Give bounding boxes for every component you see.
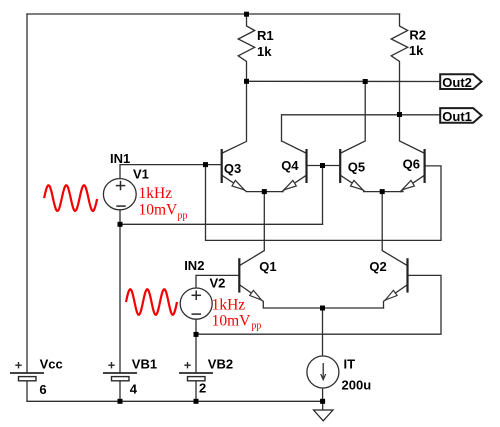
svg-text:1k: 1k — [409, 43, 424, 58]
battery VB2 — [179, 362, 213, 381]
svg-text:V2: V2 — [210, 276, 226, 291]
wire Q4 emitter — [282, 175, 306, 191]
junction Q1 Q2 emitters — [320, 306, 325, 311]
svg-text:R1: R1 — [257, 28, 274, 43]
transistor Q4 — [281, 149, 306, 190]
junction IT ground — [320, 399, 325, 404]
svg-text:10mV: 10mV — [139, 202, 179, 219]
svg-text:pp: pp — [178, 210, 188, 221]
voltage source V1 — [103, 179, 136, 210]
wire Out1 net — [282, 115, 441, 141]
junction V1 minus — [118, 222, 123, 227]
wire V2 minus to VB2 — [195, 319, 197, 372]
svg-text:200u: 200u — [342, 378, 372, 393]
wire Q5 emitter — [340, 175, 403, 191]
transistor Q1 — [239, 258, 276, 300]
port Out1 — [440, 108, 481, 124]
wire VB2 battery to rail — [195, 381, 197, 401]
svg-text:pp: pp — [251, 321, 261, 332]
wire tail to Q2 collector — [382, 192, 407, 266]
transistor Q2 — [369, 258, 407, 300]
wire Out2 net — [247, 80, 441, 82]
wire Q2 emitter — [384, 285, 408, 308]
current source IT — [307, 356, 339, 388]
svg-text:Out2: Out2 — [442, 75, 472, 90]
wire Q6 collector — [400, 115, 425, 154]
wire V1 minus to VB1 — [119, 224, 121, 373]
wire Q2 base loop — [196, 275, 441, 334]
wire base junction to V1 minus — [322, 166, 324, 225]
wire tail to Q1 collector — [239, 192, 264, 266]
wire Q4 collector — [282, 141, 307, 153]
junction R1 bottom — [244, 79, 249, 84]
svg-text:Q2: Q2 — [369, 259, 386, 274]
junction VB1 ground — [118, 399, 123, 404]
wire IT to ground — [322, 388, 324, 402]
battery Vcc — [10, 362, 44, 381]
svg-text:Q4: Q4 — [281, 158, 299, 173]
svg-text:Vcc: Vcc — [40, 356, 63, 371]
voltage source V2 — [180, 288, 212, 319]
wire Q6 emitter — [401, 175, 425, 191]
wire ground rail — [27, 400, 323, 402]
wire IN2 to Q1 base — [196, 275, 239, 288]
svg-text:V1: V1 — [133, 166, 149, 181]
wire Q5 collector — [340, 82, 365, 154]
svg-text:VB2: VB2 — [208, 356, 233, 371]
sine wave V1 — [44, 185, 97, 211]
wire emitter tail to IT — [322, 308, 324, 356]
junction V2 minus — [194, 332, 199, 337]
wire Q4 Q5 bases — [307, 165, 341, 167]
junction IN1 — [203, 162, 208, 167]
svg-text:IN1: IN1 — [110, 151, 130, 166]
resistor R1 — [238, 14, 255, 81]
wire Q3 emitter — [222, 175, 283, 191]
svg-text:10mV: 10mV — [212, 312, 252, 329]
svg-text:R2: R2 — [409, 28, 426, 43]
wire Vcc battery to rail — [26, 381, 28, 401]
resistor R2 — [391, 14, 408, 114]
ground — [314, 401, 334, 421]
svg-text:2: 2 — [199, 381, 206, 396]
svg-text:4: 4 — [130, 382, 138, 397]
wire VB1 battery to rail — [119, 381, 121, 401]
junction R1 top — [244, 12, 249, 17]
svg-text:Q6: Q6 — [403, 157, 420, 172]
sine wave V2 — [126, 289, 177, 315]
port Out2 — [440, 74, 481, 90]
wire left Vcc drop — [26, 14, 28, 373]
junction Q5 collector Out2 — [363, 79, 368, 84]
transistor Q6 — [402, 149, 425, 190]
transistor Q3 — [222, 149, 245, 190]
wire Q1 emitter — [239, 285, 383, 308]
svg-text:IN2: IN2 — [184, 258, 204, 273]
junction Q5 Q6 emitters — [380, 189, 385, 194]
wire IN1 to Q3 base — [120, 165, 222, 179]
svg-text:Out1: Out1 — [442, 109, 472, 124]
transistor Q5 — [340, 149, 365, 190]
battery VB1 — [103, 362, 137, 381]
junction VB2 ground — [194, 399, 199, 404]
svg-text:Q3: Q3 — [224, 161, 241, 176]
svg-text:6: 6 — [39, 382, 46, 397]
svg-text:VB1: VB1 — [132, 356, 157, 371]
junction Q3 Q4 emitters — [262, 189, 267, 194]
junction R2 bottom Out1 — [397, 112, 402, 117]
junction Q4 Q5 base — [320, 163, 325, 168]
svg-text:1kHz: 1kHz — [212, 296, 246, 313]
wire IN1 to Q6 base — [206, 165, 442, 241]
wire V1 minus rail — [120, 210, 323, 225]
svg-text:Q5: Q5 — [348, 159, 365, 174]
svg-text:Q1: Q1 — [259, 259, 276, 274]
svg-text:IT: IT — [344, 357, 356, 372]
wire top Vcc rail — [27, 13, 400, 15]
svg-text:1k: 1k — [257, 44, 272, 59]
wire Q3 collector — [222, 81, 247, 153]
svg-text:1kHz: 1kHz — [139, 185, 173, 202]
